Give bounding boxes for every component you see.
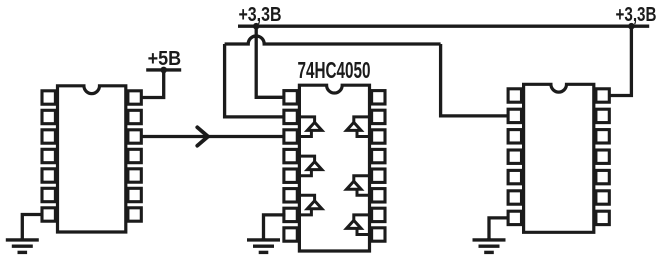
IC 74HC4050 pin 9 (right) [372, 91, 385, 104]
IC DD2 pin 8 (right) [596, 89, 609, 102]
IC 74HC4050 pin 11 (right) [372, 130, 385, 143]
IC DD2 pin 13 (right) [596, 191, 609, 204]
IC DD2 pin 6 (left) [508, 191, 521, 204]
wire DD1 gnd lead [22, 215, 43, 241]
IC DD2 pin 10 (right) [596, 130, 609, 143]
wire +5V lead [142, 70, 164, 98]
svg-text:+3,3В: +3,3В [616, 4, 657, 26]
IC 74HC4050 pin 7 (left) [284, 208, 297, 221]
IC DD1 pin 11 (right) [128, 149, 141, 162]
IC DD1 pin 4 (left) [42, 149, 55, 162]
IC 74HC4050 pin 15 (right) [372, 208, 385, 221]
IC 74HC4050 pin 14 (right) [372, 189, 385, 202]
wire rail to 4050 pin1 [256, 26, 285, 97]
wire pin2 link with hop [225, 36, 441, 44]
ground GND1 [6, 238, 39, 252]
buffer U1c [299, 195, 322, 215]
IC 74HC4050 pin 8 (left) [284, 228, 297, 241]
ground GND2 [247, 238, 280, 252]
wire 4050 gnd lead [264, 215, 286, 240]
IC DD1 pin 7 (left) [42, 208, 55, 221]
wire +5V bar [146, 68, 181, 71]
svg-text:74HC4050: 74HC4050 [298, 57, 371, 83]
ground GND3 [473, 238, 506, 252]
IC DD2 pin 3 (left) [508, 130, 521, 143]
wire DD2 gnd lead [489, 218, 510, 240]
IC 74HC4050 pin 16 (right) [372, 228, 385, 241]
IC DD2 pin 14 (right) [596, 211, 609, 224]
svg-text:+5В: +5В [148, 48, 182, 70]
IC 74HC4050 pin 5 (left) [284, 169, 297, 182]
IC DD1 pin 6 (left) [42, 188, 55, 201]
IC 74HC4050 pin 12 (right) [372, 149, 385, 162]
IC 74HC4050 body [299, 85, 369, 251]
buffer U1a [299, 117, 322, 137]
buffer U1f [347, 215, 370, 235]
IC 74HC4050 pin 3 (left) [284, 130, 297, 143]
IC 74HC4050 pin 13 (right) [372, 169, 385, 182]
junction +5V tap [160, 67, 167, 74]
IC DD1 pin 1 (left) [42, 91, 55, 104]
IC DD2 pin 12 (right) [596, 170, 609, 183]
svg-text:+3,3В: +3,3В [239, 4, 282, 26]
IC DD2 pin 9 (right) [596, 109, 609, 122]
wire rail to DD2 vdd [610, 26, 632, 95]
IC DD1 pin 5 (left) [42, 169, 55, 182]
IC 74HC4050 pin 6 (left) [284, 189, 297, 202]
wire +3.3V rail [238, 25, 649, 28]
IC DD1 pin 10 (right) [128, 130, 141, 143]
IC DD1 pin 3 (left) [42, 130, 55, 143]
buffer U1d [347, 117, 370, 137]
IC DD1 pin 14 (right) [128, 208, 141, 221]
IC DD1 pin 12 (right) [128, 169, 141, 182]
IC DD1 pin 13 (right) [128, 188, 141, 201]
wire pin2 link vertical right [441, 44, 510, 116]
IC DD1 pin 2 (left) [42, 110, 55, 123]
buffer U1b [299, 156, 322, 176]
IC DD1 pin 8 (right) [128, 91, 141, 104]
junction rail tap right [628, 23, 635, 30]
IC DD2 pin 1 (left) [508, 89, 521, 102]
IC DD1 pin 9 (right) [128, 110, 141, 123]
IC DD2 pin 7 (left) [508, 211, 521, 224]
wire signal to 4050 [142, 135, 286, 138]
IC DD2 pin 2 (left) [508, 109, 521, 122]
IC DD1 body [58, 86, 126, 232]
IC DD2 pin 5 (left) [508, 170, 521, 183]
IC DD2 body [524, 84, 594, 232]
buffer U1e [347, 176, 370, 196]
junction rail tap left [253, 23, 260, 30]
IC 74HC4050 pin 4 (left) [284, 149, 297, 162]
IC 74HC4050 pin 2 (left) [284, 110, 297, 123]
IC DD2 pin 11 (right) [596, 150, 609, 163]
IC DD2 pin 4 (left) [508, 150, 521, 163]
IC 74HC4050 pin 1 (left) [284, 91, 297, 104]
wire pin2 link vertical left [225, 44, 285, 117]
arrowhead signal direction [197, 127, 208, 145]
IC 74HC4050 pin 10 (right) [372, 110, 385, 123]
